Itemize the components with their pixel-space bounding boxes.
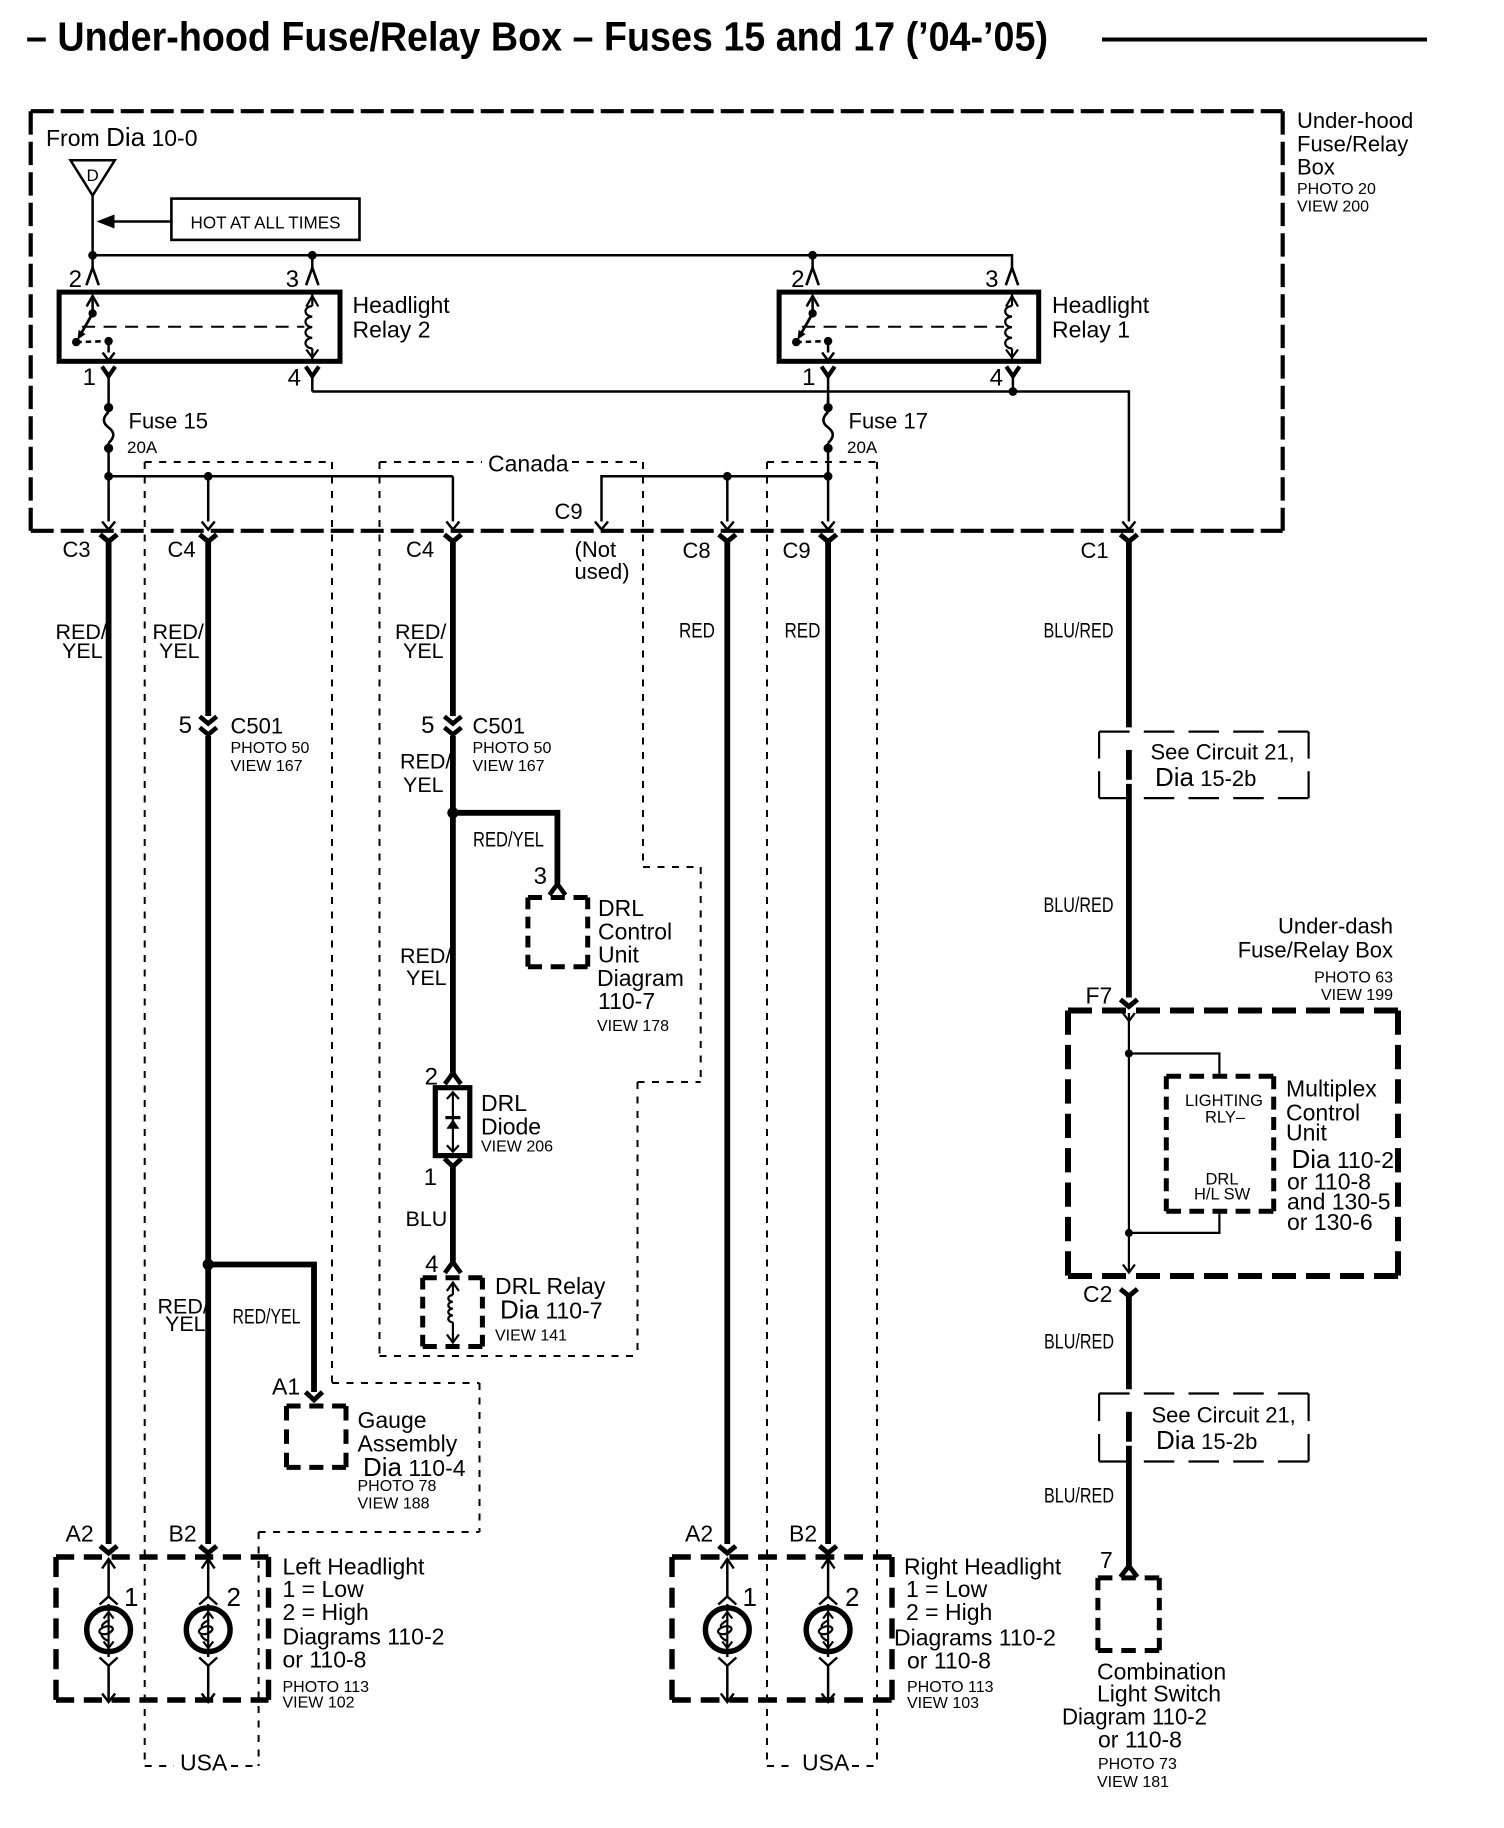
relay Headlight Relay 1 box <box>779 292 1039 361</box>
bulb left low beam (1) top contact chevron <box>100 1597 118 1605</box>
relay2 pin 1 connector <box>102 367 115 398</box>
svg-text:Relay 2: Relay 2 <box>353 317 431 343</box>
wire bus to relay1 pin2 <box>811 255 814 267</box>
connector A2 left headlight <box>100 1546 117 1553</box>
svg-text:1: 1 <box>424 1164 437 1191</box>
svg-text:Fuse/Relay Box: Fuse/Relay Box <box>1238 938 1393 963</box>
arrow into C3 <box>102 522 115 530</box>
bulb right high beam (2) filament <box>818 1609 833 1651</box>
svg-text:B2: B2 <box>169 1521 197 1547</box>
wire from triangle D to bus <box>91 196 94 256</box>
connector C501 left (lower chevron) <box>200 728 217 735</box>
label DRL Control Unit <box>597 895 684 1014</box>
connector C4 (right) <box>444 535 461 542</box>
relay1 pin 4 connector <box>1006 367 1019 392</box>
svg-text:YEL: YEL <box>159 639 200 663</box>
svg-text:3: 3 <box>286 266 299 293</box>
svg-text:PHOTO 50: PHOTO 50 <box>473 740 552 757</box>
svg-text:Dia 15-2b: Dia 15-2b <box>1156 1425 1257 1455</box>
bulb terminal arrow (top) right high beam (2) <box>822 1559 835 1569</box>
bulb right low beam (1) top contact chevron <box>718 1597 736 1605</box>
label RED/YEL C4 right <box>395 620 446 663</box>
svg-text:2 = High: 2 = High <box>906 1599 992 1625</box>
wire relay pin4 outputs to C1 <box>312 392 1129 522</box>
fuse Fuse 15 <box>104 397 113 476</box>
combination light switch box (dashed) <box>1098 1578 1159 1651</box>
svg-text:F7: F7 <box>1086 983 1113 1009</box>
bulb terminal arrow (top) right low beam (1) <box>721 1559 734 1569</box>
relay2 pin 2 connector <box>86 268 98 286</box>
junction dot multiplex bottom branch <box>1125 1229 1133 1237</box>
wire to combination light switch (BLU/RED) <box>1126 1446 1132 1566</box>
bulb left high beam (2) top contact chevron <box>199 1597 217 1605</box>
bulb return arrow (bottom) right low beam (1) <box>721 1694 734 1703</box>
svg-text:RED: RED <box>679 619 715 643</box>
wire left high beam (2) bulb feed <box>207 1559 210 1596</box>
svg-text:Fuse/Relay: Fuse/Relay <box>1297 132 1408 157</box>
bulb right low beam (1) filament <box>717 1609 732 1651</box>
svg-text:C9: C9 <box>783 538 811 563</box>
title rule line <box>1102 38 1427 42</box>
svg-text:or 110-8: or 110-8 <box>907 1648 991 1674</box>
wire to C9 <box>827 476 830 521</box>
arrow to C2 <box>1123 1265 1135 1273</box>
svg-text:RLY–: RLY– <box>1205 1109 1246 1127</box>
relay1 pin 1 connector <box>822 367 835 408</box>
svg-text:C3: C3 <box>63 537 91 562</box>
under-dash fuse/relay box label <box>1238 914 1393 1005</box>
svg-text:RED/YEL: RED/YEL <box>233 1305 301 1329</box>
svg-text:HOT AT ALL TIMES: HOT AT ALL TIMES <box>191 213 341 233</box>
svg-text:5: 5 <box>421 712 434 739</box>
svg-text:Headlight: Headlight <box>353 292 451 318</box>
svg-text:C8: C8 <box>683 538 711 563</box>
bulb right low beam (1) envelope <box>705 1608 749 1652</box>
relay Headlight Relay 1 switch output to pin 1 <box>827 341 830 352</box>
connector F7 <box>1120 1000 1137 1007</box>
svg-text:3: 3 <box>534 863 547 890</box>
svg-text:1: 1 <box>83 364 96 391</box>
svg-text:BLU/RED: BLU/RED <box>1044 619 1114 643</box>
wire fuse17 to C9 not used <box>602 476 829 521</box>
connector C501 right (upper chevron) <box>444 717 461 724</box>
left headlight box (dashed) <box>56 1557 269 1700</box>
wire from multiplex control unit bottom <box>1129 1211 1220 1233</box>
svg-text:A2: A2 <box>685 1521 713 1547</box>
svg-text:VIEW 102: VIEW 102 <box>283 1695 355 1712</box>
bulb right high beam (2) bottom contact chevron <box>819 1658 837 1666</box>
HOT AT ALL TIMES callout box <box>171 199 359 240</box>
junction dot bus/relay1 pin2 <box>808 251 817 260</box>
label Combination Light Switch <box>1062 1659 1226 1792</box>
svg-text:Fuse 15: Fuse 15 <box>129 409 209 434</box>
svg-text:Under-dash: Under-dash <box>1278 914 1393 939</box>
wire C3 to left headlight A2 (RED/YEL) <box>106 541 112 1544</box>
svg-text:2 = High: 2 = High <box>283 1599 369 1625</box>
connector pin 7 combination light switch <box>1120 1566 1137 1577</box>
bus wire hot at all times <box>93 255 1012 267</box>
see circuit 21 box (upper) <box>1099 732 1309 799</box>
svg-text:YEL: YEL <box>403 639 444 663</box>
connector labels row <box>63 499 1109 584</box>
relay Headlight Relay 1 switch arm <box>801 296 819 334</box>
relay Headlight Relay 1 internal dashed line <box>802 326 1004 328</box>
svg-text:2: 2 <box>69 266 82 293</box>
connector C2 <box>1120 1289 1137 1296</box>
svg-text:Diode: Diode <box>481 1114 541 1140</box>
fuse Fuse 17 <box>823 397 832 476</box>
multiplex control unit internal labels <box>1185 1092 1263 1204</box>
arrow into C1 <box>1122 522 1135 530</box>
label DRL Diode <box>481 1090 553 1156</box>
relay1 pin 2 connector <box>806 268 818 286</box>
wire C4-left lower (RED/YEL) <box>205 736 211 1544</box>
connector C1 <box>1120 535 1137 542</box>
svg-text:C4: C4 <box>168 537 196 562</box>
svg-text:2: 2 <box>227 1582 241 1612</box>
connector pin 1 DRL diode <box>444 1159 461 1167</box>
svg-text:4: 4 <box>425 1251 438 1278</box>
wire branch to DRL control unit (RED/YEL) <box>453 813 558 884</box>
label Gauge Assembly <box>358 1407 466 1513</box>
junction dot bus/triangle <box>88 251 97 260</box>
thin dashed outline Canada group <box>380 462 701 1356</box>
label Multiplex Control Unit <box>1286 1076 1394 1236</box>
svg-text:C9: C9 <box>555 499 583 524</box>
svg-text:7: 7 <box>1100 1547 1113 1573</box>
label 5 / C501 left <box>179 712 310 775</box>
svg-text:VIEW 141: VIEW 141 <box>495 1328 567 1345</box>
junction dot bus/relay2 pin3 <box>308 251 317 260</box>
bulb return arrow (bottom) left high beam (2) <box>202 1694 215 1703</box>
arrow into C4 left <box>202 522 215 530</box>
label RED/YEL C3 <box>56 620 107 663</box>
svg-text:BLU/RED: BLU/RED <box>1044 1484 1114 1508</box>
wire through under-dash box <box>1128 1013 1130 1271</box>
svg-text:YEL: YEL <box>62 639 103 663</box>
svg-text:LIGHTING: LIGHTING <box>1185 1092 1263 1110</box>
svg-text:Gauge: Gauge <box>358 1407 427 1433</box>
svg-text:VIEW 199: VIEW 199 <box>1321 987 1393 1004</box>
svg-text:BLU/RED: BLU/RED <box>1044 893 1114 917</box>
svg-text:Under-hood: Under-hood <box>1297 108 1413 133</box>
svg-text:VIEW 200: VIEW 200 <box>1297 199 1369 216</box>
svg-text:Multiplex: Multiplex <box>1286 1076 1377 1102</box>
relay Headlight Relay 1 coil <box>1005 292 1018 361</box>
svg-text:YEL: YEL <box>406 966 447 990</box>
label See Circuit 21 lower <box>1152 1403 1296 1456</box>
DRL relay coil <box>447 1283 459 1343</box>
svg-text:1: 1 <box>124 1582 138 1612</box>
svg-text:PHOTO 113: PHOTO 113 <box>907 1679 994 1696</box>
label Headlight Relay 2 <box>353 292 451 343</box>
svg-text:H/L SW: H/L SW <box>1194 1186 1251 1204</box>
connector A1 gauge assembly <box>306 1392 323 1400</box>
svg-text:A1: A1 <box>272 1374 300 1400</box>
connector B2 left headlight <box>200 1546 217 1553</box>
see circuit 21 box (lower) <box>1099 1394 1309 1462</box>
multiplex control unit inner box (dashed) <box>1166 1076 1273 1211</box>
svg-text:DRL: DRL <box>481 1090 527 1116</box>
connector pin 3 DRL control unit <box>549 884 565 895</box>
wire left low beam (1) bulb return <box>107 1665 110 1701</box>
wire bus to relay2 pin3 <box>311 255 314 267</box>
svg-text:VIEW 167: VIEW 167 <box>231 758 303 775</box>
svg-text:110-7: 110-7 <box>598 988 655 1014</box>
svg-text:A2: A2 <box>66 1521 94 1547</box>
wire right high beam (2) bulb return <box>827 1665 830 1701</box>
svg-text:2: 2 <box>791 266 804 293</box>
label RED/YEL above diode <box>400 944 451 990</box>
relay Headlight Relay 1 pin labels <box>791 266 1003 392</box>
thin dashed outline left (USA group) <box>145 462 480 1766</box>
wire to C8 <box>726 476 729 521</box>
svg-text:Headlight: Headlight <box>1052 292 1150 318</box>
svg-text:1: 1 <box>802 364 815 391</box>
svg-text:USA: USA <box>802 1750 850 1776</box>
bulb left low beam (1) filament <box>98 1609 113 1651</box>
svg-text:or 110-8: or 110-8 <box>283 1647 367 1673</box>
svg-text:VIEW 188: VIEW 188 <box>358 1496 430 1513</box>
svg-text:See Circuit 21,: See Circuit 21, <box>1152 1403 1296 1428</box>
connector pin 4 DRL relay <box>445 1262 461 1273</box>
junction dot DRL branch <box>447 807 458 818</box>
svg-text:USA: USA <box>180 1750 228 1776</box>
label RED/YEL below C501 right <box>400 750 451 798</box>
relay Headlight Relay 2 box <box>59 292 340 361</box>
connector C4 (left) <box>200 535 217 542</box>
svg-text:Fuse 17: Fuse 17 <box>849 409 929 434</box>
svg-text:B2: B2 <box>789 1521 817 1547</box>
svg-text:C1: C1 <box>1081 538 1109 563</box>
bulb terminal arrow (top) left high beam (2) <box>202 1559 215 1569</box>
wire C4-right to DRL diode (RED/YEL) <box>450 736 456 1073</box>
bulb terminal arrow (top) left low beam (1) <box>102 1559 115 1569</box>
bulb left low beam (1) envelope <box>87 1608 131 1652</box>
wire C1 upper (BLU/RED) <box>1126 541 1132 727</box>
svg-text:Relay 1: Relay 1 <box>1052 317 1130 343</box>
power source triangle D <box>71 160 115 195</box>
svg-text:20A: 20A <box>847 438 878 457</box>
right headlight box (dashed) <box>672 1557 892 1700</box>
wire left high beam (2) bulb return <box>207 1665 210 1701</box>
connector A2 right headlight <box>719 1546 736 1553</box>
svg-text:VIEW 103: VIEW 103 <box>907 1695 979 1712</box>
svg-text:VIEW 181: VIEW 181 <box>1097 1774 1169 1791</box>
DRL diode internal symbol <box>447 1092 459 1152</box>
HOT AT ALL TIMES arrow <box>97 215 172 229</box>
relay2 pin 4 connector <box>306 367 319 392</box>
arrow into C4 right <box>446 522 459 530</box>
bulb return arrow (bottom) right high beam (2) <box>822 1694 835 1703</box>
bulb left high beam (2) filament <box>198 1609 213 1651</box>
wire to multiplex control unit top <box>1129 1054 1220 1077</box>
wire C4-right upper (RED/YEL) <box>450 541 456 716</box>
svg-text:Unit: Unit <box>1286 1120 1328 1146</box>
label See Circuit 21 upper <box>1151 740 1295 793</box>
bulb left low beam (1) bottom contact chevron <box>100 1658 118 1666</box>
under-hood fuse/relay box label <box>1297 108 1413 216</box>
label Headlight Relay 1 <box>1052 292 1150 343</box>
connector C501 right (lower chevron) <box>444 728 461 735</box>
relay Headlight Relay 2 switch arm <box>81 296 99 334</box>
svg-text:1: 1 <box>743 1582 757 1612</box>
svg-text:PHOTO 113: PHOTO 113 <box>283 1679 370 1696</box>
svg-text:4: 4 <box>990 365 1003 392</box>
svg-text:or 130-6: or 130-6 <box>1287 1209 1373 1235</box>
arrow into C8 <box>721 522 734 530</box>
junction dot fuse17/C9 <box>824 472 833 481</box>
connector C9 <box>820 535 837 542</box>
connector C3 <box>100 535 117 542</box>
svg-text:PHOTO 73: PHOTO 73 <box>1098 1756 1177 1773</box>
svg-text:From Dia 10-0: From Dia 10-0 <box>46 122 198 152</box>
junction dot fuse15/C3 <box>104 472 113 481</box>
bulb return arrow (bottom) left low beam (1) <box>102 1694 115 1703</box>
connector B2 right headlight <box>820 1546 837 1553</box>
DRL control unit box (dashed) <box>528 898 588 967</box>
wire C2 (BLU/RED) <box>1126 1296 1132 1389</box>
wire left low beam (1) bulb feed <box>107 1559 110 1596</box>
svg-text:VIEW 178: VIEW 178 <box>597 1018 669 1035</box>
wire right low beam (1) bulb return <box>726 1665 729 1701</box>
DRL relay box (dashed) <box>423 1278 483 1347</box>
svg-text:PHOTO 78: PHOTO 78 <box>358 1478 437 1495</box>
relay Headlight Relay 2 switch dashed link <box>76 341 108 342</box>
under-dash fuse/relay box (dashed) <box>1068 1011 1398 1277</box>
under-hood fuse/relay box (dashed outline) <box>31 111 1283 531</box>
svg-text:RED/: RED/ <box>400 944 451 968</box>
junction dot C4 branch <box>204 472 213 481</box>
bulb right low beam (1) bottom contact chevron <box>718 1658 736 1666</box>
bulb left high beam (2) envelope <box>186 1608 230 1652</box>
wire dashed through see-circuit box (lower) <box>1126 1412 1132 1442</box>
svg-text:4: 4 <box>288 365 301 392</box>
svg-text:2: 2 <box>845 1582 859 1612</box>
wire C8 to right headlight A2 (RED) <box>724 541 730 1544</box>
connector C501 left (upper chevron) <box>200 717 217 724</box>
wire bus to relay2 pin2 <box>91 255 94 267</box>
label RED/YEL C4 left <box>153 620 204 663</box>
svg-text:Unit: Unit <box>598 942 640 968</box>
svg-text:VIEW 206: VIEW 206 <box>481 1139 553 1156</box>
wire dashed through see-circuit box (upper) <box>1126 750 1132 780</box>
connector pin 2 DRL diode <box>445 1073 461 1084</box>
arrow into C9 <box>822 522 835 530</box>
svg-text:See Circuit 21,: See Circuit 21, <box>1151 740 1295 765</box>
svg-text:RED: RED <box>785 619 821 643</box>
bulb left high beam (2) bottom contact chevron <box>199 1658 217 1666</box>
wire diode to DRL relay (BLU) <box>450 1167 456 1262</box>
arrow into under-dash box <box>1123 1013 1135 1021</box>
wire right low beam (1) bulb feed <box>726 1559 729 1596</box>
wire fuse15 distribution <box>109 475 453 478</box>
wire C4-left upper (RED/YEL) <box>205 541 211 716</box>
svg-text:BLU: BLU <box>406 1207 448 1231</box>
svg-text:or 110-8: or 110-8 <box>1098 1727 1182 1753</box>
bulb right high beam (2) top contact chevron <box>819 1597 837 1605</box>
svg-text:– Under-hood Fuse/Relay Box –: – Under-hood Fuse/Relay Box – Fuses 15 a… <box>26 14 1048 60</box>
wire C9 to right headlight B2 (RED) <box>825 541 831 1544</box>
svg-text:PHOTO 63: PHOTO 63 <box>1314 970 1393 987</box>
svg-text:20A: 20A <box>127 438 158 457</box>
relay2 pin 3 connector <box>306 268 318 286</box>
junction dot multiplex top branch <box>1125 1050 1133 1058</box>
svg-text:5: 5 <box>179 712 192 739</box>
label RED/YEL C4 left lower <box>158 1295 209 1337</box>
svg-text:DRL: DRL <box>598 895 644 921</box>
svg-text:Dia 110-7: Dia 110-7 <box>500 1295 603 1325</box>
relay Headlight Relay 2 switch output to pin 1 <box>107 341 110 352</box>
svg-text:RED/YEL: RED/YEL <box>473 828 544 852</box>
wire right high beam (2) bulb feed <box>827 1559 830 1596</box>
arrow into C9 not used <box>595 522 608 530</box>
label Left Headlight block <box>283 1554 445 1673</box>
junction dot gauge branch <box>203 1259 214 1270</box>
svg-text:used): used) <box>575 559 630 584</box>
wire branch to gauge assembly (RED/YEL) <box>208 1265 314 1393</box>
svg-text:BLU/RED: BLU/RED <box>1044 1330 1114 1354</box>
label DRL Relay <box>495 1273 606 1345</box>
svg-text:Box: Box <box>1297 155 1335 180</box>
svg-text:Dia 15-2b: Dia 15-2b <box>1155 762 1256 792</box>
wire C1 to F7 (BLU/RED) <box>1126 784 1132 998</box>
gauge assembly box (dashed) <box>287 1406 347 1467</box>
junction dot relay1 pin4 <box>1009 387 1018 396</box>
wire to C4 left <box>207 476 210 521</box>
relay Headlight Relay 2 internal dashed line <box>82 326 304 328</box>
svg-text:C501: C501 <box>231 714 284 739</box>
svg-text:D: D <box>86 166 98 185</box>
relay Headlight Relay 2 coil <box>305 292 318 361</box>
bulb right high beam (2) envelope <box>806 1608 850 1652</box>
svg-text:VIEW 167: VIEW 167 <box>473 758 545 775</box>
svg-text:C501: C501 <box>473 714 526 739</box>
svg-text:RED/: RED/ <box>400 750 451 774</box>
svg-text:YEL: YEL <box>165 1312 206 1336</box>
label Right Headlight block <box>894 1554 1062 1674</box>
svg-text:PHOTO 50: PHOTO 50 <box>231 740 310 757</box>
thin dashed outline right (USA group) <box>767 462 877 1766</box>
wire to C3 <box>107 476 110 521</box>
svg-text:PHOTO 20: PHOTO 20 <box>1297 181 1376 198</box>
svg-text:C2: C2 <box>1083 1281 1112 1307</box>
svg-text:3: 3 <box>985 266 998 293</box>
svg-text:Canada: Canada <box>488 451 569 477</box>
DRL diode D1 box <box>435 1088 470 1156</box>
connector C8 <box>719 535 736 542</box>
junction dot C8 branch <box>723 472 732 481</box>
relay1 pin 3 connector <box>1006 268 1018 286</box>
svg-text:YEL: YEL <box>403 773 444 797</box>
relay Headlight Relay 1 switch dashed link <box>796 341 828 342</box>
wire to C4 right <box>452 476 455 521</box>
label 5 / C501 right <box>421 712 551 775</box>
svg-text:C4: C4 <box>406 537 434 562</box>
relay Headlight Relay 2 pin labels <box>69 266 301 392</box>
